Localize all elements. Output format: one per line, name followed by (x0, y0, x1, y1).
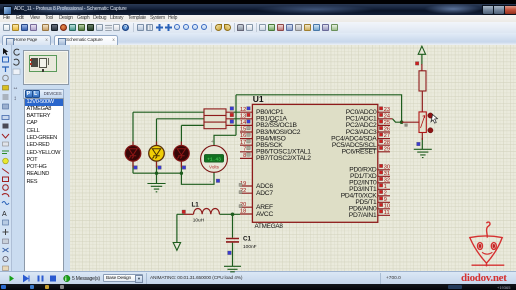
svg-text:10uH: 10uH (193, 217, 205, 223)
svg-text:30: 30 (384, 164, 390, 170)
svg-text:diodov.net: diodov.net (461, 272, 507, 284)
svg-text:+: + (211, 139, 214, 145)
svg-text:7: 7 (243, 146, 246, 152)
svg-text:32: 32 (384, 177, 390, 183)
svg-text:29: 29 (384, 146, 390, 152)
svg-text:PB7/TOSC2/XTAL2: PB7/TOSC2/XTAL2 (256, 155, 311, 162)
svg-text:14: 14 (240, 120, 246, 126)
svg-text:ADC7: ADC7 (256, 190, 273, 197)
svg-text:PC6/RESET: PC6/RESET (342, 149, 377, 156)
svg-text:9: 9 (384, 197, 387, 203)
svg-text:12: 12 (240, 107, 246, 113)
svg-text:8: 8 (243, 153, 246, 159)
svg-text:25: 25 (384, 120, 390, 126)
svg-text:16: 16 (240, 133, 246, 139)
svg-text:18: 18 (240, 209, 246, 215)
svg-text:C1: C1 (243, 236, 251, 243)
svg-text:13: 13 (240, 113, 246, 119)
svg-text:15: 15 (240, 127, 246, 133)
svg-text:10: 10 (384, 203, 390, 209)
svg-text:ATMEGA8: ATMEGA8 (255, 223, 284, 230)
svg-text:28: 28 (384, 140, 390, 146)
svg-text:17: 17 (240, 140, 246, 146)
svg-text:Volts: Volts (209, 164, 220, 169)
svg-text:2: 2 (384, 190, 387, 196)
svg-text:L1: L1 (192, 202, 200, 209)
svg-text:31: 31 (384, 171, 390, 177)
svg-text:+1.43: +1.43 (207, 156, 221, 162)
svg-text:1: 1 (384, 184, 387, 190)
svg-text:24: 24 (384, 113, 390, 119)
svg-text:PD7/AIN1: PD7/AIN1 (349, 212, 377, 219)
svg-text:27: 27 (384, 133, 390, 139)
svg-text:AVCC: AVCC (256, 211, 274, 218)
svg-text:100nF: 100nF (243, 244, 257, 250)
svg-text:ADC6: ADC6 (256, 183, 273, 190)
svg-text:23: 23 (384, 107, 390, 113)
svg-text:U1: U1 (253, 94, 264, 104)
svg-text:11: 11 (384, 210, 390, 216)
svg-text:26: 26 (384, 127, 390, 133)
